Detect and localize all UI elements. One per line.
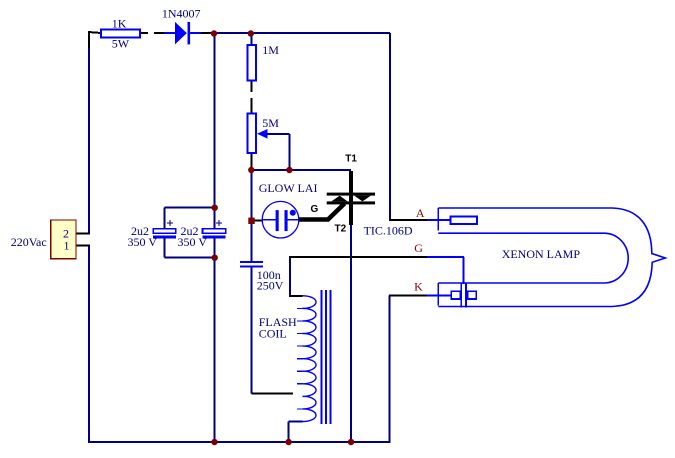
junction bottom rail coil [285,439,291,445]
potentiometer 5M [248,114,280,154]
svg-text:350 V: 350 V [178,235,208,249]
wire 5M bottom lead black [251,153,253,170]
xenon anode electrode [451,216,477,224]
wire 1K to diode black [140,32,164,34]
wire 100n tap to coil black [252,393,294,395]
svg-text:TIC.106D: TIC.106D [364,224,413,238]
wire coil bottom lead [289,422,303,443]
svg-text:1N4007: 1N4007 [162,7,201,21]
wire diode to node black [200,32,214,34]
wire glow node to 100n [251,221,253,262]
svg-text:COIL: COIL [259,327,287,341]
svg-text:5W: 5W [112,37,130,51]
svg-text:GLOW LAI: GLOW LAI [259,181,318,195]
pin anode blue [427,219,450,221]
xenon trigger band [461,283,466,308]
xenon lamp tube [438,208,665,307]
junction cap bottom [212,255,218,261]
wire 100n down [251,267,253,394]
wire trigger net corner navy [289,257,291,296]
wire cap1 bottom link [164,238,214,258]
diode 1N4007 [162,7,201,45]
pin cathode blue [427,295,451,297]
wire glow node to glow lamp black [252,220,263,222]
junction wiper [286,167,292,173]
resistor 1M [248,43,280,81]
wire connector stub 2 black [76,232,90,234]
svg-text:A: A [416,206,425,220]
svg-text:K: K [414,279,423,293]
svg-text:1: 1 [64,239,70,253]
wire left rail navy [88,48,90,443]
resistor 1K 5W [101,17,140,51]
thyristor TIC.106D [299,171,413,238]
svg-text:350 V: 350 V [128,235,158,249]
wire T2 down [350,224,352,442]
wire top rail left black [88,32,101,50]
junction glow node [248,218,254,224]
svg-text:G: G [311,204,319,215]
svg-text:1M: 1M [262,43,279,57]
svg-text:1K: 1K [112,17,127,31]
wire 1M to 5M black [251,80,253,114]
wire cap1 top link [164,208,214,229]
svg-text:T1: T1 [345,153,357,164]
svg-text:G: G [414,241,423,255]
svg-text:220Vac: 220Vac [11,235,47,249]
wire cathode net black [389,295,427,297]
wire 1M top lead [251,33,253,45]
wire node to glow node [251,170,253,221]
wire trigger net black [289,256,427,258]
wire coil top lead black [289,295,303,297]
capacitor C2 2u2 350V [178,220,226,249]
glow lamp [259,181,318,238]
wire bottom rail [88,441,390,443]
junction bottom rail main [211,439,217,445]
wire anode drop from rail [389,33,391,220]
pin trigger blue [427,257,464,284]
svg-text:5M: 5M [262,116,279,130]
capacitor C1 2u2 350V [128,220,176,249]
wire cathode net vertical [389,296,391,443]
wire node to T1 [252,169,352,171]
svg-text:T2: T2 [335,224,347,235]
flash coil [259,290,331,424]
wire top rail navy [213,32,390,34]
junction cap top [212,205,218,211]
capacitor C3 100n 250V [240,262,284,293]
junction 1M top [248,30,254,36]
wire connector stub 1 black [76,244,90,246]
junction bottom rail T2 [348,439,354,445]
junction 5M bottom [248,167,254,173]
junction diode-node [211,30,217,36]
svg-text:250V: 250V [257,279,284,293]
wire main vertical [214,33,216,442]
svg-text:XENON LAMP: XENON LAMP [502,247,581,261]
wire 5M wiper [265,134,289,170]
xenon cathode electrode [451,291,476,299]
wire anode net black [389,219,427,221]
connector J1 220Vac [11,220,76,259]
